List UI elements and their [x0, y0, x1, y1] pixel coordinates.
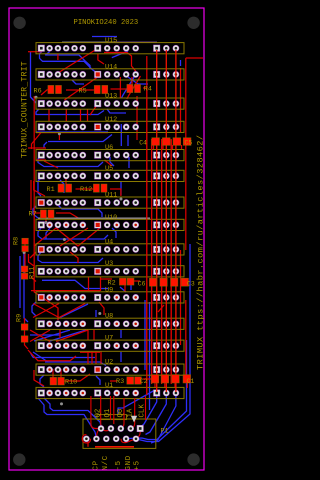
capacitor C6	[138, 280, 146, 287]
svg-text:PINOKIO240 2023: PINOKIO240 2023	[74, 19, 139, 27]
capacitor C5	[185, 139, 193, 146]
resistor R12	[80, 184, 107, 194]
svg-text:TRIMUX_COUNTER_TRIT: TRIMUX_COUNTER_TRIT	[20, 61, 29, 158]
IC U6	[36, 144, 184, 161]
svg-text:1A: 1A	[127, 408, 135, 417]
svg-text:U10: U10	[105, 214, 117, 222]
IC U13	[36, 93, 184, 110]
svg-text:GND: GND	[125, 455, 133, 470]
svg-text:C2: C2	[140, 378, 148, 385]
IC U4	[36, 238, 184, 255]
svg-text:+5: +5	[134, 460, 142, 470]
connector P1	[82, 396, 168, 448]
IC U2	[36, 359, 184, 376]
IC U1	[36, 382, 184, 399]
resistor R5	[79, 85, 108, 95]
svg-text:U5: U5	[105, 165, 113, 173]
wire top-layer red net	[25, 49, 204, 396]
capacitor bank C6-C3 pads	[149, 278, 188, 286]
board outline	[9, 8, 204, 470]
mounting hole top-right	[187, 17, 199, 29]
svg-text:Q2: Q2	[95, 409, 103, 418]
svg-text:R10: R10	[65, 379, 77, 387]
IC U12	[36, 116, 184, 133]
IC U8	[36, 313, 184, 330]
capacitor C1	[187, 378, 195, 385]
resistor R3	[116, 377, 141, 386]
resistor R7	[29, 210, 55, 219]
svg-text:R11: R11	[29, 267, 37, 279]
resistor R4	[127, 84, 152, 93]
svg-text:N/C: N/C	[102, 455, 110, 470]
svg-text:U1: U1	[105, 382, 113, 390]
svg-text:TRIMUX ttps://habr.com/ru/arti: TRIMUX ttps://habr.com/ru/articles/32846…	[195, 135, 205, 370]
capacitor bank C2-C1 pads	[151, 375, 190, 383]
wire bus row1 right	[108, 41, 157, 43]
resistor R1	[47, 184, 72, 194]
svg-text:CLK: CLK	[139, 404, 147, 418]
svg-text:U6: U6	[105, 144, 113, 152]
svg-text:C6: C6	[138, 280, 146, 287]
svg-text:R1: R1	[47, 186, 55, 194]
svg-text:U2: U2	[105, 359, 113, 367]
capacitor C4	[139, 139, 147, 146]
IC U7	[36, 335, 184, 352]
resistor R10	[50, 377, 77, 386]
wire red bus over rows	[147, 50, 176, 394]
IC U14	[36, 63, 184, 80]
svg-text:R3: R3	[116, 378, 124, 386]
svg-text:-5: -5	[115, 460, 123, 470]
IC U3	[36, 260, 184, 277]
wire bottom-layer blue net	[20, 37, 190, 444]
resistor R9	[16, 314, 29, 342]
svg-text:U11: U11	[105, 192, 117, 200]
svg-text:P1: P1	[161, 427, 169, 434]
mounting hole top-left	[13, 17, 25, 29]
resistor R2	[108, 278, 135, 287]
svg-text:U3: U3	[105, 260, 113, 268]
svg-text:R5: R5	[79, 88, 87, 96]
resistor R8	[13, 237, 29, 252]
resistor R11	[21, 266, 36, 279]
svg-text:R9: R9	[16, 314, 24, 322]
svg-text:C5: C5	[185, 139, 193, 146]
svg-text:C4: C4	[139, 139, 147, 146]
IC U9	[36, 286, 184, 303]
IC U5	[36, 165, 184, 182]
wire jumper row1	[62, 41, 108, 43]
svg-text:Q1: Q1	[104, 408, 112, 417]
svg-text:U8: U8	[105, 313, 113, 321]
mounting hole bottom-left	[13, 453, 25, 465]
capacitor bank C4-C5 pads	[152, 138, 191, 146]
via dots	[23, 96, 123, 406]
svg-text:U4: U4	[105, 238, 113, 246]
mounting hole bottom-right	[187, 453, 199, 465]
IC U11	[36, 192, 184, 209]
capacitor C3	[187, 280, 195, 287]
IC U10	[36, 214, 184, 231]
svg-text:C1: C1	[187, 378, 195, 385]
IC U15	[36, 37, 184, 54]
wire jumper row8	[38, 217, 150, 219]
svg-text:R4: R4	[144, 86, 152, 94]
svg-text:U9: U9	[105, 286, 113, 294]
svg-text:CP: CP	[93, 460, 101, 470]
svg-text:R7: R7	[29, 211, 37, 219]
svg-text:R2: R2	[108, 280, 116, 288]
svg-text:U7: U7	[105, 335, 113, 343]
svg-text:R12: R12	[80, 186, 92, 194]
svg-text:C3: C3	[187, 280, 195, 287]
svg-text:U12: U12	[105, 116, 117, 124]
svg-text:R6: R6	[34, 88, 42, 96]
resistor R6	[34, 85, 62, 95]
capacitor C2	[140, 378, 148, 385]
svg-text:R8: R8	[13, 237, 21, 245]
svg-text:U15: U15	[105, 37, 117, 45]
svg-text:U14: U14	[105, 63, 117, 71]
svg-text:Q0: Q0	[117, 409, 125, 418]
